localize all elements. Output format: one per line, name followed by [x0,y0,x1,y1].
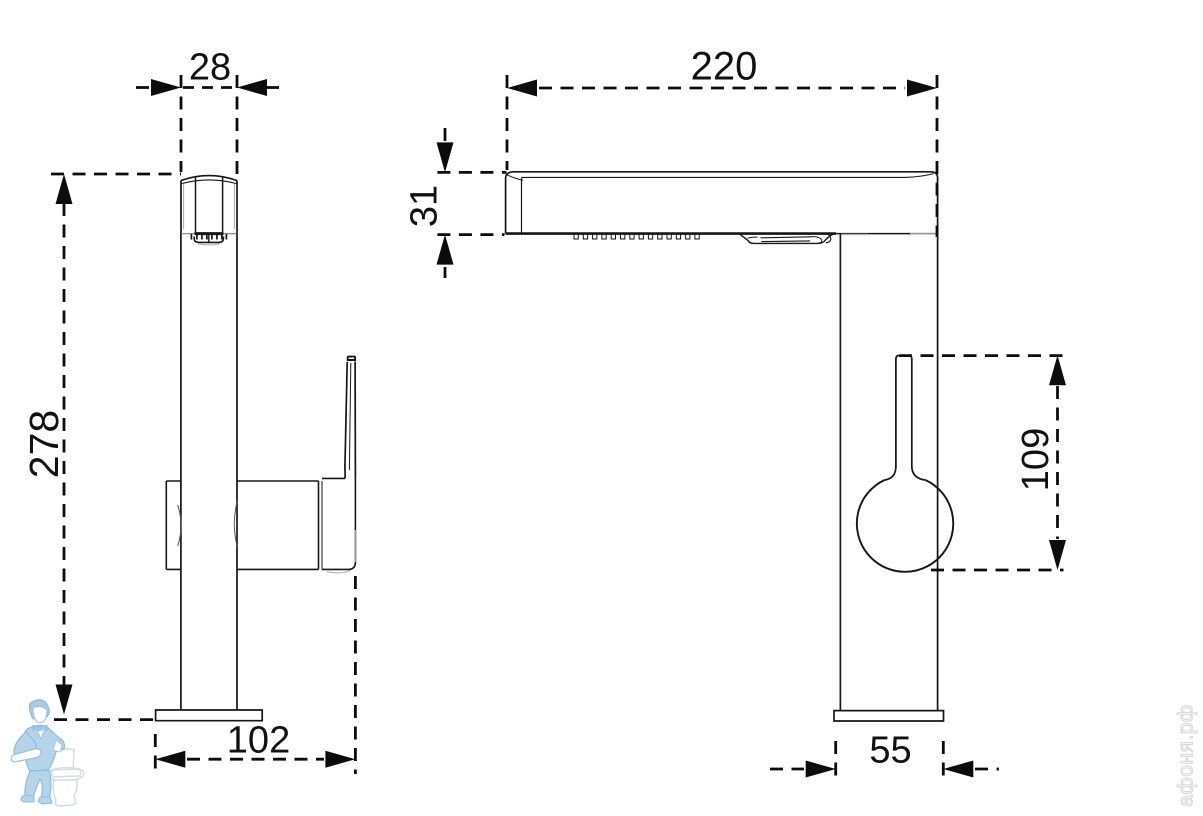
svg-text:220: 220 [691,44,758,88]
left view: column sides [181,234,237,710]
left view: handle bell [322,477,345,479]
right view: base plate [834,711,944,721]
right view: pull-out spray head tray [738,233,834,244]
watermark: plumber mascot [11,700,84,806]
left view: spout tip inner rim arc [182,180,237,184]
right view: spout body outline [506,172,938,234]
left view: base plate [156,710,263,721]
left view: cylinder shading arcs [178,505,181,546]
dim 31: vertical stubs [444,128,447,143]
left view: lever top cap [348,357,355,360]
svg-text:28: 28 [189,46,231,88]
left view: spout tip inner face lines [196,178,223,234]
svg-text:278: 278 [21,410,67,478]
right view: spout corner hook [507,175,523,180]
dim 220: extension lines [506,75,509,170]
svg-text:102: 102 [227,719,290,761]
right view: column joint line [841,233,868,235]
svg-text:афоня.рф: афоня.рф [1175,704,1198,806]
left view: spout tip outline [181,181,237,234]
left view: aerator tray [194,237,223,243]
dim 28: arrowheads (outside, pointing inward) [151,79,181,96]
left view: aerator center tick [208,234,210,243]
dim 278: top connector [51,173,181,176]
svg-text:109: 109 [1015,428,1057,491]
dim 220: line dashes [539,87,905,90]
dim 28: extension lines [180,75,183,172]
right view: spout inner top line [522,174,934,178]
right view: spout left end cap line [521,178,523,233]
dim 278: bottom connector [54,718,154,721]
right view: handle stem [896,355,912,467]
dim 55: line dashes [770,768,804,771]
dim 55: extension lines [834,741,837,781]
left view: valve cylinder [166,480,318,482]
svg-text:55: 55 [869,729,911,771]
right view: handle knob circle [857,480,953,572]
left view: lever bar [345,362,347,478]
dimension labels [21,44,1057,771]
dim 109: connectors [899,354,1064,357]
left view: aerator shadow arc [198,244,220,245]
right view: handle stem fillets [884,466,896,480]
dim 102: extension lines [154,734,157,773]
right view: vent slots [574,234,699,239]
dim 109: arrowheads [1049,355,1066,385]
dim 102: line dashes [187,758,324,761]
left view: aerator teeth [191,234,226,240]
dim 55: arrowheads [806,761,836,778]
dim 220: arrowheads [507,80,537,97]
dim 31: arrowheads [437,142,454,172]
dim 102: arrowheads (inside, pointing outward) [155,751,185,768]
left view: spout tip side shading [184,184,235,229]
right view: column sides [839,234,841,711]
svg-text:31: 31 [403,185,445,227]
dim 278: vertical line [63,203,66,685]
dim 28: line dashes [136,86,152,89]
left view: spout tip bottom edge [181,233,237,235]
dim 31: connectors [437,171,506,174]
dim 278: arrowheads [56,174,73,204]
right view: spout bottom edge [506,232,836,235]
dim 109: vertical line [1056,386,1059,539]
